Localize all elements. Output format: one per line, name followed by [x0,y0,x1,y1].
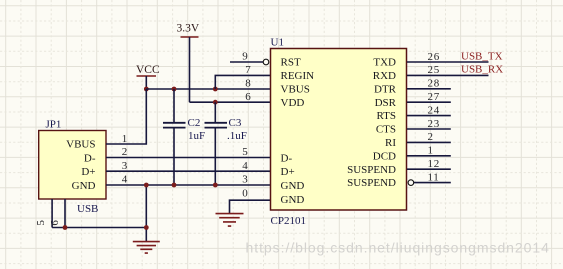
wire ground drop from GND row [145,185,147,242]
svg-text:6: 6 [49,219,61,225]
U1 pin 6 number [245,91,251,103]
U1 pin 3 number [242,174,248,186]
svg-text:3.3V: 3.3V [177,23,200,35]
wire VCC down to VBUS row [106,89,146,144]
wire REGIN pin 7 [215,75,270,89]
U1 pin 9 RST [230,51,269,65]
connector JP1 body [39,119,106,216]
power VCC [136,64,160,89]
svg-text:9: 9 [242,51,248,63]
U1 pin 12 SUSPEND [407,158,451,170]
junction GND drop [144,183,149,188]
junction pin6 shield [63,225,68,230]
svg-text:2: 2 [122,146,128,158]
svg-text:GND: GND [281,180,305,192]
wire VCC rail to VBUS pin 8 [146,88,270,90]
svg-text:USB_RX: USB_RX [461,64,503,76]
svg-text:VBUS: VBUS [281,83,310,95]
svg-text:GND: GND [281,194,305,206]
svg-text:DCD: DCD [373,150,396,162]
svg-text:D-: D- [84,152,96,164]
svg-text:USB_TX: USB_TX [461,51,503,63]
svg-text:5: 5 [242,146,248,158]
svg-text:U1: U1 [271,37,284,49]
net label USB_TX [461,51,503,63]
svg-text:VBUS: VBUS [66,139,95,151]
svg-text:C3: C3 [229,117,242,129]
power 3.3V [177,23,200,103]
net label USB_RX [461,64,503,76]
svg-text:C2: C2 [188,117,201,129]
svg-text:https://blog.csdn.net/liuqings: https://blog.csdn.net/liuqingsongmsdn201… [246,240,550,256]
wire D+ row JP1 to U1 [106,170,271,172]
svg-text:TXD: TXD [373,57,396,69]
U1 pin 24 RTS [407,104,451,116]
svg-text:RST: RST [281,57,301,69]
U1 pin 1 DCD [407,145,451,157]
junction VCC rail [144,87,149,92]
svg-text:8: 8 [245,78,251,90]
svg-text:D-: D- [281,152,293,164]
svg-text:24: 24 [428,104,440,116]
svg-text:25: 25 [428,64,440,76]
svg-text:GND: GND [72,180,96,192]
wire VDD row [190,101,271,103]
svg-text:SUSPEND: SUSPEND [347,164,396,176]
capacitor C2 [163,89,205,185]
svg-text:4: 4 [122,174,128,186]
svg-text:.1uF: .1uF [227,130,247,142]
U1 pin 4 number [242,160,248,172]
svg-text:4: 4 [242,160,248,172]
svg-text:REGIN: REGIN [281,70,315,82]
svg-text:VCC: VCC [136,64,160,76]
svg-text:1: 1 [428,145,434,157]
svg-text:7: 7 [245,64,251,76]
svg-text:26: 26 [428,51,440,63]
U1 pin 2 RI [407,131,451,143]
svg-text:SUSPEND: SUSPEND [347,177,396,189]
svg-text:1uF: 1uF [188,130,205,142]
ground GND2 [216,214,244,227]
svg-text:6: 6 [245,91,251,103]
svg-text:VDD: VDD [281,97,305,109]
U1 pin 8 number [245,78,251,90]
ground GND1 [133,242,160,254]
IC U1 body [271,37,407,228]
JP1 pin 5 [35,199,52,228]
svg-text:11: 11 [428,171,440,183]
svg-text:RTS: RTS [376,110,396,122]
wire GND pad pin 0 [230,200,271,213]
svg-text:3: 3 [122,160,128,172]
svg-text:DTR: DTR [374,83,397,95]
svg-text:USB: USB [77,203,98,215]
JP1 pin 4 [122,174,128,186]
svg-text:2: 2 [428,131,434,143]
junction shield/ground [144,225,149,230]
U1 pin 23 CTS [407,118,451,130]
junction C2 rail [172,87,177,92]
svg-text:JP1: JP1 [46,119,62,131]
svg-text:28: 28 [428,78,440,90]
U1 pin 7 number [245,64,251,76]
wire D- row JP1 to U1 [106,157,271,159]
svg-text:23: 23 [428,118,440,130]
svg-text:CTS: CTS [376,124,396,136]
U1 pin 25 RXD wire [407,64,489,76]
svg-text:D+: D+ [281,166,295,178]
U1 pin 5 number [242,146,248,158]
svg-text:3: 3 [242,174,248,186]
svg-text:12: 12 [428,158,440,170]
svg-text:RI: RI [385,137,396,149]
svg-text:0: 0 [242,187,248,199]
svg-text:5: 5 [35,219,47,225]
wire GND row JP1 to U1 [106,184,271,186]
U1 pin 27 DSR [407,91,451,103]
JP1 pin 1 [122,133,128,145]
svg-text:CP2101: CP2101 [271,215,306,227]
svg-text:RXD: RXD [373,70,396,82]
JP1 pin 3 [122,160,128,172]
svg-text:D+: D+ [81,166,95,178]
svg-text:27: 27 [428,91,440,103]
JP1 pin 6 [49,199,65,228]
U1 pin 26 TXD wire [407,51,489,63]
U1 pin 11 SUSPEND [408,171,451,185]
junction C2 GND [172,183,177,188]
junction C3 GND [213,183,218,188]
junction C3 VDD [213,100,218,105]
svg-text:1: 1 [122,133,128,145]
U1 pin 0 number [242,187,248,199]
svg-text:DSR: DSR [375,97,397,109]
wire JP1 shield to ground [52,227,146,229]
watermark [246,240,550,256]
junction REGIN rail [213,87,218,92]
capacitor C3 [205,102,247,185]
U1 pin 28 DTR [407,78,451,90]
JP1 pin 2 [122,146,128,158]
